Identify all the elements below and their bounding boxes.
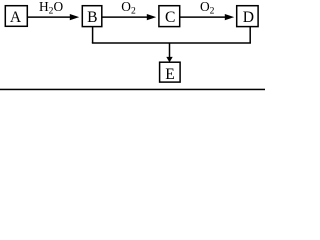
box E — [160, 62, 181, 82]
svg-text:E: E — [165, 66, 175, 83]
arrowhead into E — [166, 57, 172, 63]
wire B to C — [102, 16, 149, 18]
wire B down — [92, 27, 94, 43]
svg-text:D: D — [243, 9, 254, 26]
arrowhead into C — [147, 14, 156, 20]
arrowhead into D — [225, 14, 234, 20]
box A — [5, 6, 27, 27]
wire A to B — [28, 16, 72, 18]
svg-text:B: B — [87, 9, 97, 26]
arrowhead into B — [70, 14, 79, 20]
box B — [82, 6, 102, 27]
box C — [159, 6, 180, 27]
svg-text:A: A — [10, 9, 22, 26]
wire down to E — [169, 43, 171, 58]
wire bus horizontal — [92, 42, 251, 44]
box D — [237, 6, 258, 27]
bottom rule — [0, 89, 265, 91]
wire D down — [249, 27, 251, 43]
wire C to D — [180, 16, 227, 18]
svg-text:C: C — [165, 9, 175, 26]
